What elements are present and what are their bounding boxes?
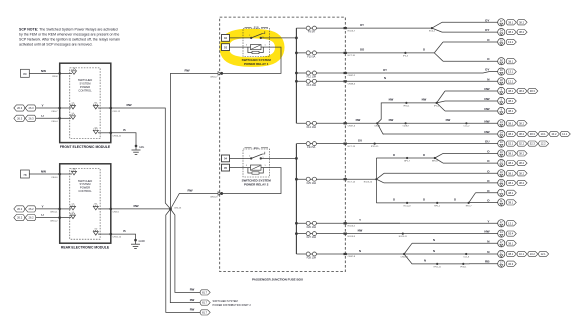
svg-text:N: N	[433, 249, 435, 253]
fuse F27 10A	[296, 232, 345, 240]
svg-text:NW: NW	[484, 130, 489, 134]
svg-text:26.3: 26.3	[17, 116, 23, 120]
ground GML	[132, 145, 145, 155]
svg-text:F14 10A: F14 10A	[307, 126, 317, 129]
svg-text:F25 10A: F25 10A	[307, 182, 317, 185]
svg-text:N: N	[359, 249, 361, 253]
wire O to connector row 3	[443, 38, 516, 46]
splice IP55-1	[403, 102, 410, 108]
svg-text:81.7: 81.7	[202, 311, 208, 315]
svg-text:38.1: 38.1	[508, 30, 514, 34]
FEM pin CR04	[52, 68, 77, 78]
svg-text:NW: NW	[389, 98, 394, 102]
wire B FEM to ground	[111, 128, 136, 150]
svg-text:SYSTEM: SYSTEM	[79, 82, 91, 86]
svg-text:38.1: 38.1	[508, 89, 514, 93]
wire branch to row8	[437, 101, 445, 103]
wire RW up to relay 1 coil pin CR40-7	[171, 68, 219, 209]
wire O to connector row 13	[443, 149, 527, 157]
svg-text:38.1: 38.1	[508, 59, 514, 63]
wire branch to row4	[434, 53, 443, 61]
svg-text:OY: OY	[383, 68, 387, 72]
svg-text:10.1: 10.1	[519, 252, 525, 256]
svg-text:POWER RELAY 1: POWER RELAY 1	[244, 62, 269, 66]
splice IP5-3	[403, 52, 409, 57]
svg-text:RF1-1: RF1-1	[434, 205, 441, 207]
svg-text:NW: NW	[484, 97, 489, 101]
wire NW to connector row 7	[445, 87, 538, 95]
wire NW to connector row 8	[445, 97, 516, 105]
svg-text:26.3: 26.3	[17, 106, 23, 110]
svg-text:N: N	[433, 238, 435, 242]
svg-text:G04R: G04R	[139, 240, 146, 243]
wire branch to row7	[437, 91, 445, 103]
svg-text:5: 5	[262, 36, 263, 38]
pin EC7-10	[344, 52, 356, 57]
svg-text:NW: NW	[41, 69, 46, 73]
svg-text:78: 78	[23, 173, 27, 177]
wire OY to connector row 2	[442, 28, 527, 36]
module REM box	[60, 164, 111, 243]
tag 26.3 pair Y	[14, 105, 36, 111]
svg-text:12.1: 12.1	[508, 79, 514, 83]
FEM pin CR0-7 Y	[51, 103, 75, 113]
svg-text:92: 92	[224, 36, 228, 40]
splice EC03-11	[399, 233, 408, 239]
pin EC05-9	[344, 233, 356, 238]
fuse F9 5A	[296, 26, 345, 34]
svg-text:CR11-12: CR11-12	[113, 237, 122, 239]
svg-text:38.2: 38.2	[519, 152, 525, 156]
splice IP55-15	[371, 143, 379, 149]
svg-text:12.2: 12.2	[541, 142, 547, 146]
splice TJ28-9	[402, 122, 409, 127]
wire O to connector row 15	[384, 169, 527, 177]
svg-text:95: 95	[224, 166, 228, 170]
svg-text:NW: NW	[484, 87, 489, 91]
fuse F10 5A	[296, 51, 345, 59]
svg-text:1: 1	[264, 165, 265, 167]
wire OO from F10	[347, 48, 434, 53]
wire Y from F26	[347, 218, 400, 223]
wire NW to connector row 11	[383, 130, 570, 138]
svg-text:Y: Y	[359, 218, 361, 222]
svg-text:EC05-5: EC05-5	[348, 226, 356, 228]
wire NW 78 to REM	[29, 170, 59, 174]
REM pin CR4-6 RW out	[93, 203, 119, 213]
wire branch to row13	[435, 153, 443, 158]
svg-text:38.2: 38.2	[519, 20, 525, 24]
svg-text:SWITCHED: SWITCHED	[78, 78, 92, 82]
splice BF0-8	[432, 157, 439, 163]
svg-text:38.2: 38.2	[519, 132, 525, 136]
svg-text:POWER: POWER	[80, 85, 90, 89]
svg-text:NW: NW	[484, 119, 489, 123]
pin CR40-9	[210, 192, 223, 199]
wire NW branch down to row11	[377, 123, 384, 134]
svg-text:93: 93	[224, 45, 228, 49]
svg-text:12.1: 12.1	[541, 252, 547, 256]
svg-text:RW: RW	[190, 308, 195, 312]
svg-text:13.1: 13.1	[508, 70, 514, 74]
wire O to connector row 4	[443, 57, 516, 65]
pin CR47-8	[344, 253, 356, 258]
tag 81.7 row 2	[190, 298, 211, 305]
svg-text:RW: RW	[187, 189, 192, 193]
svg-text:5: 5	[262, 157, 263, 159]
svg-text:26.2: 26.2	[29, 216, 35, 220]
svg-text:38.1: 38.1	[508, 132, 514, 136]
wire NW to connector row 9	[445, 107, 516, 115]
splice CR0-13 X junction	[169, 207, 182, 210]
tag 26.2 pair U REM	[14, 215, 36, 221]
svg-text:93.4: 93.4	[508, 232, 514, 236]
fuse F24 5A	[296, 142, 345, 150]
FEM pin CR0-4 U	[51, 113, 75, 123]
svg-text:N: N	[424, 259, 426, 263]
splice CR04-4	[401, 253, 409, 259]
tag 26.2 pair Y REM	[14, 206, 36, 212]
wire U to FEM	[36, 114, 60, 119]
wire U to REM	[36, 213, 60, 218]
wire relay2 switch out to bus	[270, 157, 297, 159]
svg-text:NW: NW	[389, 118, 394, 122]
svg-text:CR48-6: CR48-6	[348, 84, 356, 86]
module FEM box	[60, 63, 111, 142]
svg-text:36.3: 36.3	[508, 262, 514, 266]
fuse F14 10A	[296, 121, 345, 129]
pin CR48-6	[344, 80, 356, 85]
svg-text:SCP Network. After the ignitio: SCP Network. After the ignition is switc…	[19, 38, 120, 42]
svg-text:REAR ELECTRONIC MODULE: REAR ELECTRONIC MODULE	[61, 246, 110, 250]
wire NW from F27	[347, 228, 403, 233]
svg-text:38.3: 38.3	[530, 132, 536, 136]
wire B REM to ground	[111, 229, 136, 244]
wire N to connector row 21	[412, 239, 516, 247]
svg-text:EC0-2: EC0-2	[429, 31, 436, 33]
svg-text:CR0-6: CR0-6	[374, 126, 381, 128]
svg-text:EC7-14: EC7-14	[348, 181, 356, 183]
svg-text:activated until all SCP messag: activated until all SCP messages are rem…	[19, 42, 92, 46]
wire branch to row18	[469, 201, 471, 204]
svg-text:RF2-7: RF2-7	[466, 205, 473, 207]
svg-text:IP55-1: IP55-1	[403, 105, 410, 107]
svg-text:PASSENGER JUNCTION FUSE BOX: PASSENGER JUNCTION FUSE BOX	[252, 278, 303, 282]
svg-text:38.2: 38.2	[519, 30, 525, 34]
svg-text:EC05-9: EC05-9	[348, 236, 356, 238]
svg-text:CR40-7: CR40-7	[210, 76, 218, 78]
svg-text:38.1: 38.1	[508, 20, 514, 24]
svg-text:13.1: 13.1	[508, 221, 514, 225]
svg-text:RB: RB	[485, 260, 490, 264]
note SCP	[19, 28, 120, 47]
wire branch to row1	[432, 22, 442, 28]
svg-text:F24 5A: F24 5A	[307, 146, 315, 149]
svg-text:CR1-12: CR1-12	[113, 111, 121, 113]
svg-text:CONTROL: CONTROL	[78, 189, 92, 193]
splice EC1-22	[404, 202, 412, 208]
svg-text:NW: NW	[446, 118, 451, 122]
svg-text:SCP NOTE: The Switched System: SCP NOTE: The Switched System Power Rela…	[19, 28, 118, 32]
svg-text:38.2: 38.2	[519, 89, 525, 93]
svg-text:IP55-11: IP55-11	[434, 266, 442, 268]
wire GU from F24	[347, 138, 376, 143]
splice EC03-10	[364, 178, 378, 184]
svg-text:CR0-7: CR0-7	[51, 111, 58, 113]
wire O to connector row 17	[476, 189, 517, 197]
svg-text:RW: RW	[190, 288, 195, 292]
wire Y to REM	[36, 204, 60, 209]
svg-text:CC1-2: CC1-2	[463, 126, 470, 128]
svg-text:F12 10A: F12 10A	[307, 76, 317, 79]
svg-text:38.1: 38.1	[508, 161, 514, 165]
wire O to connector row 16	[384, 179, 527, 187]
svg-text:26.2: 26.2	[29, 207, 35, 211]
wire OY to connector row 5	[485, 68, 516, 76]
FEM pin CR1-12 RW out	[93, 103, 121, 113]
fuse F28 10A	[296, 252, 345, 260]
svg-text:2: 2	[249, 35, 250, 37]
splice IP55-11	[434, 263, 442, 269]
svg-text:FRONT ELECTRONIC MODULE: FRONT ELECTRONIC MODULE	[60, 145, 111, 149]
svg-text:94: 94	[224, 157, 228, 161]
svg-text:RW: RW	[184, 68, 189, 72]
svg-text:38.2: 38.2	[519, 161, 525, 165]
svg-text:CR4-6: CR4-6	[113, 212, 120, 214]
svg-text:POWER RELAY 2: POWER RELAY 2	[244, 182, 269, 186]
svg-text:26.2: 26.2	[17, 207, 23, 211]
svg-text:81.7: 81.7	[202, 291, 208, 295]
tag 81.7 row 3	[190, 308, 211, 315]
svg-text:GU: GU	[485, 140, 490, 144]
svg-text:RW: RW	[133, 204, 138, 208]
connector 78	[21, 170, 30, 178]
svg-text:38.1: 38.1	[508, 252, 514, 256]
wire branch to row9	[437, 103, 445, 111]
wire O riser	[375, 158, 377, 203]
wire branch to row14	[435, 158, 443, 163]
svg-text:CR0-13: CR0-13	[174, 207, 182, 209]
splice IP5-2	[434, 102, 440, 108]
wire RW FEM out	[111, 103, 171, 209]
svg-text:SWITCHED: SWITCHED	[78, 179, 92, 183]
svg-text:38.1: 38.1	[508, 181, 514, 185]
svg-text:NW: NW	[358, 228, 363, 232]
svg-text:POWER: POWER	[80, 186, 90, 190]
svg-text:NW: NW	[356, 118, 361, 122]
REM pin CR4-0	[51, 168, 76, 178]
fuse F13 20A	[296, 79, 345, 87]
svg-text:CR47-6: CR47-6	[348, 126, 356, 128]
svg-text:SYSTEM: SYSTEM	[79, 182, 91, 186]
svg-text:EC03-11: EC03-11	[399, 236, 408, 238]
svg-text:NW: NW	[484, 107, 489, 111]
splice IP58-1	[460, 263, 467, 269]
svg-text:38.1: 38.1	[508, 109, 514, 113]
wire relay2 coil to CR40-9	[223, 168, 281, 194]
svg-text:CR4-0: CR4-0	[51, 177, 58, 179]
svg-text:R1B: R1B	[254, 26, 259, 29]
svg-text:38.1: 38.1	[508, 121, 514, 125]
pin EC05-5	[344, 222, 356, 227]
wire O top branch	[376, 153, 434, 158]
svg-text:3: 3	[246, 165, 247, 167]
wire N straight row22	[433, 249, 435, 253]
wire branch to row2	[432, 28, 442, 32]
svg-text:CR10-2: CR10-2	[50, 220, 58, 222]
fuse F12 10A	[296, 71, 345, 79]
svg-text:RW: RW	[190, 298, 195, 302]
splice CR0-6	[374, 122, 381, 127]
wire O bottom branch	[376, 198, 468, 203]
wire NW to connector row 20	[403, 230, 516, 238]
svg-text:GU: GU	[358, 138, 362, 142]
svg-text:26.3: 26.3	[29, 116, 35, 120]
svg-text:N: N	[384, 76, 386, 80]
wire NW mid to row10	[377, 118, 470, 123]
wire N branch up to row21	[404, 238, 435, 254]
ground G04R	[131, 239, 145, 249]
connector 80	[21, 69, 30, 77]
pin CR47-2	[344, 72, 356, 77]
svg-text:80: 80	[23, 72, 27, 76]
pin CR47-6	[344, 122, 356, 127]
svg-text:10.2: 10.2	[530, 252, 536, 256]
svg-text:38.2: 38.2	[519, 121, 525, 125]
tag 26.3 pair U	[14, 115, 36, 121]
svg-text:TJ28-9: TJ28-9	[402, 126, 409, 128]
svg-text:52.1: 52.1	[508, 142, 514, 146]
svg-text:10.2: 10.2	[551, 132, 557, 136]
wire N branch down	[404, 254, 469, 264]
splice CC1-2	[463, 122, 470, 127]
svg-text:52.3: 52.3	[530, 142, 536, 146]
svg-text:12.1: 12.1	[562, 132, 568, 136]
wire Y to FEM	[36, 104, 60, 109]
wire relay1 coil to CR40-7	[223, 47, 281, 73]
REM pin CR10-1 Y	[50, 203, 76, 213]
relay R1B switched system power relay 1	[222, 26, 272, 66]
tag 81.7 row 1	[190, 288, 211, 295]
svg-text:IP55-15: IP55-15	[371, 146, 379, 148]
wire N to connector row 22	[404, 250, 549, 258]
svg-text:CR47-8: CR47-8	[348, 256, 356, 258]
wire N from F13	[384, 76, 386, 80]
svg-text:IP58-1: IP58-1	[460, 266, 467, 268]
svg-text:13.1: 13.1	[508, 40, 514, 44]
wire RW down lead 3	[166, 209, 200, 312]
wire O to connector row 14	[443, 159, 527, 167]
svg-text:F9 5A: F9 5A	[308, 31, 315, 34]
wire O mid branch to row16	[376, 179, 384, 183]
svg-text:F27 10A: F27 10A	[307, 236, 317, 239]
svg-text:NW: NW	[484, 230, 489, 234]
svg-text:26.3: 26.3	[29, 106, 35, 110]
svg-text:BF0-8: BF0-8	[432, 160, 439, 162]
pin EC03-7	[344, 27, 356, 32]
splice CC1-8	[463, 253, 470, 259]
wire O to connector row 18	[471, 198, 516, 206]
wire NW branch up	[377, 98, 436, 124]
svg-text:BF1-7: BF1-7	[404, 160, 411, 162]
svg-text:GML: GML	[139, 146, 145, 149]
svg-text:NW: NW	[41, 170, 46, 174]
svg-text:38.2: 38.2	[519, 171, 525, 175]
svg-text:38.1: 38.1	[508, 152, 514, 156]
svg-text:F13 20A: F13 20A	[307, 84, 317, 87]
svg-text:R2A: R2A	[254, 147, 259, 150]
fuse F26 10A	[296, 221, 345, 229]
svg-text:CR0-4: CR0-4	[51, 121, 58, 123]
FEM internal switched system power control	[70, 68, 100, 139]
svg-text:EC03-10: EC03-10	[364, 182, 373, 184]
REM pin CR10-2 U	[50, 212, 76, 222]
svg-text:EC7-13: EC7-13	[348, 146, 356, 148]
pin CR40-7	[210, 72, 223, 79]
svg-text:38.1: 38.1	[508, 241, 514, 245]
wire GU to connector row 12	[375, 140, 549, 148]
svg-text:3: 3	[246, 45, 247, 47]
REM pin CR11-12 B out	[93, 229, 122, 239]
svg-text:26.2: 26.2	[17, 216, 23, 220]
svg-text:81.7: 81.7	[202, 301, 208, 305]
wire branch to row17	[469, 193, 476, 203]
svg-text:CR47-2: CR47-2	[348, 75, 356, 77]
pin EC7-13	[344, 143, 356, 148]
wire RW down lead 2	[170, 209, 200, 303]
wire NW to connector row 10	[470, 119, 527, 127]
wire RB to connector row 23	[469, 260, 516, 268]
svg-text:38.1: 38.1	[508, 201, 514, 205]
wire OY to connector row 1	[442, 18, 527, 26]
svg-text:F26 10A: F26 10A	[307, 226, 317, 229]
svg-text:38.2: 38.2	[519, 181, 525, 185]
REM internal switched system power control	[70, 169, 100, 240]
splice BF1-7	[404, 157, 411, 163]
wire N to connector row 6	[347, 77, 516, 85]
svg-text:NW: NW	[422, 98, 427, 102]
wire O from F25	[347, 178, 377, 180]
wire NW from F14	[347, 118, 377, 123]
svg-text:F28 10A: F28 10A	[307, 257, 317, 260]
label power distribution part 2	[213, 299, 252, 307]
pin EC7-14	[344, 178, 356, 183]
wire OY from F9	[347, 23, 432, 28]
wire RW down lead 1	[171, 209, 201, 292]
svg-text:38.1: 38.1	[508, 171, 514, 175]
wire OY from F12	[347, 68, 489, 73]
bus from relay 1	[295, 28, 297, 123]
relay R2A switched system power relay 2	[222, 147, 272, 187]
svg-text:CR40-9: CR40-9	[210, 197, 218, 199]
wire NW 80 to FEM	[29, 69, 59, 73]
splice RF2-7	[466, 202, 473, 208]
svg-text:CR04: CR04	[52, 76, 58, 78]
svg-text:52.2: 52.2	[519, 142, 525, 146]
svg-text:by the FEM or the REM whenever: by the FEM or the REM whenever messages …	[19, 33, 119, 37]
svg-text:10.1: 10.1	[541, 132, 547, 136]
svg-text:IP5-3: IP5-3	[403, 55, 409, 57]
wire RW REM out	[111, 204, 171, 209]
svg-text:EC1-22: EC1-22	[404, 205, 412, 207]
svg-text:POWER DISTRIBUTION PART 2: POWER DISTRIBUTION PART 2	[213, 303, 252, 307]
svg-text:SWITCHED SYSTEM: SWITCHED SYSTEM	[213, 299, 238, 303]
svg-text:CR10-1: CR10-1	[50, 212, 58, 214]
wire O mid branch to row15	[376, 173, 384, 179]
FEM pin CR10-11 B out	[93, 127, 122, 137]
svg-text:CC1-8: CC1-8	[463, 256, 470, 258]
wire RW to relay 2 coil pin CR40-9	[171, 189, 219, 210]
